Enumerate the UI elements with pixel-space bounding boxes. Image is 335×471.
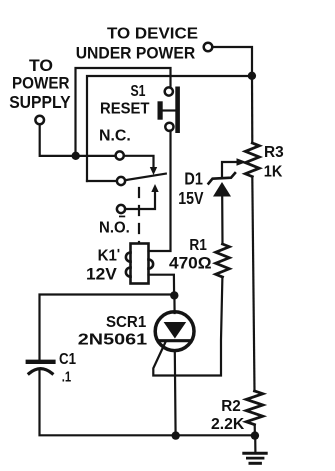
wire D1 to R1	[221, 197, 224, 244]
svg-text:2N5061: 2N5061	[78, 332, 147, 349]
wire anode node left to C1 top	[40, 295, 174, 361]
relay contact N.C. terminal	[116, 151, 124, 159]
wire N.O. terminal to arrow	[125, 192, 155, 210]
svg-text:D1: D1	[184, 168, 203, 188]
node junction at power row	[72, 152, 80, 160]
pot wiper arrowhead	[237, 158, 247, 166]
svg-text:1K: 1K	[264, 163, 283, 180]
SCR1	[155, 295, 194, 435]
wire K1 bottom terminal to anode node	[149, 275, 175, 295]
wire junction up and over to S1 top	[76, 68, 171, 156]
wire J2 to right rail	[212, 47, 252, 76]
svg-text:UNDER POWER: UNDER POWER	[76, 45, 196, 63]
resistor R1 zigzag	[216, 244, 230, 277]
svg-text:R3: R3	[264, 144, 284, 161]
svg-text:SCR1: SCR1	[106, 314, 146, 331]
label TO POWER SUPPLY	[9, 56, 71, 112]
svg-text:TO: TO	[29, 56, 53, 75]
relay moving arm	[125, 174, 166, 181]
wire N.C. terminal to fixed contact arrow	[124, 156, 154, 168]
wire J1 down to N.C. row	[40, 124, 116, 156]
wire left rail to common terminal	[87, 180, 117, 182]
wire R3 bottom down to R2 top	[252, 177, 254, 391]
label R3 1K	[264, 144, 284, 180]
node ground junction	[251, 431, 259, 439]
svg-text:12V: 12V	[86, 264, 117, 283]
label SCR1 2N5061	[78, 314, 147, 349]
scan tick after K1 label	[118, 249, 120, 252]
svg-text:RESET: RESET	[100, 101, 150, 118]
node SCR anode junction	[170, 291, 178, 299]
potentiometer R3 zigzag	[245, 143, 259, 177]
resistor R2 zigzag	[246, 391, 263, 425]
svg-text:15V: 15V	[178, 188, 204, 208]
wire right rail down to R3	[251, 76, 254, 143]
scan artifact above N.O.	[119, 216, 125, 218]
relay coil K1	[126, 244, 153, 284]
wire D1 top to pot wiper arrow	[222, 162, 237, 178]
wire SCR gate to R1 bottom	[153, 277, 222, 376]
wire common rail: top line to right junction	[87, 76, 252, 181]
switch S1 pushbutton	[158, 87, 180, 134]
svg-text:SUPPLY: SUPPLY	[9, 92, 71, 112]
wire S1 bottom down to K1 coil	[149, 131, 171, 252]
svg-text:470Ω: 470Ω	[169, 255, 212, 273]
wire C1 bottom to ground rail	[40, 371, 255, 435]
N.O. fixed contact arrowhead up	[151, 184, 158, 192]
svg-text:POWER: POWER	[12, 74, 70, 93]
label K1 12V	[86, 247, 117, 283]
label TO DEVICE UNDER POWER	[76, 25, 199, 62]
svg-text:K1: K1	[98, 247, 117, 264]
terminal J2 to device under power	[204, 43, 213, 52]
node SCR cathode junction on bottom rail	[172, 431, 180, 439]
capacitor C1	[28, 362, 54, 374]
mechanical link dashed	[138, 188, 140, 243]
label R2 2.2K	[211, 398, 245, 433]
terminal J1 to power supply	[35, 116, 44, 125]
relay contact N.O. terminal	[117, 205, 125, 213]
svg-text:N.O.: N.O.	[99, 219, 130, 236]
label S1 RESET	[100, 83, 150, 118]
N.C. fixed contact arrowhead down	[150, 167, 157, 175]
svg-text:TO DEVICE: TO DEVICE	[107, 25, 198, 42]
ground	[244, 436, 266, 464]
node junction top right rail	[248, 72, 256, 80]
label D1 15V	[178, 168, 204, 208]
zener diode D1	[209, 173, 236, 196]
svg-text:S1: S1	[131, 83, 146, 100]
svg-text:2.2K: 2.2K	[211, 416, 245, 433]
svg-text:R2: R2	[221, 398, 241, 415]
svg-text:C1: C1	[59, 351, 76, 368]
label R1 470ohm	[169, 237, 212, 273]
svg-text:N.C.: N.C.	[99, 128, 131, 145]
relay common terminal	[117, 177, 125, 185]
svg-text:R1: R1	[189, 237, 207, 254]
wire R2 bottom to ground node	[254, 425, 256, 436]
label C1 .1	[59, 351, 76, 385]
svg-text:.1: .1	[62, 369, 71, 385]
